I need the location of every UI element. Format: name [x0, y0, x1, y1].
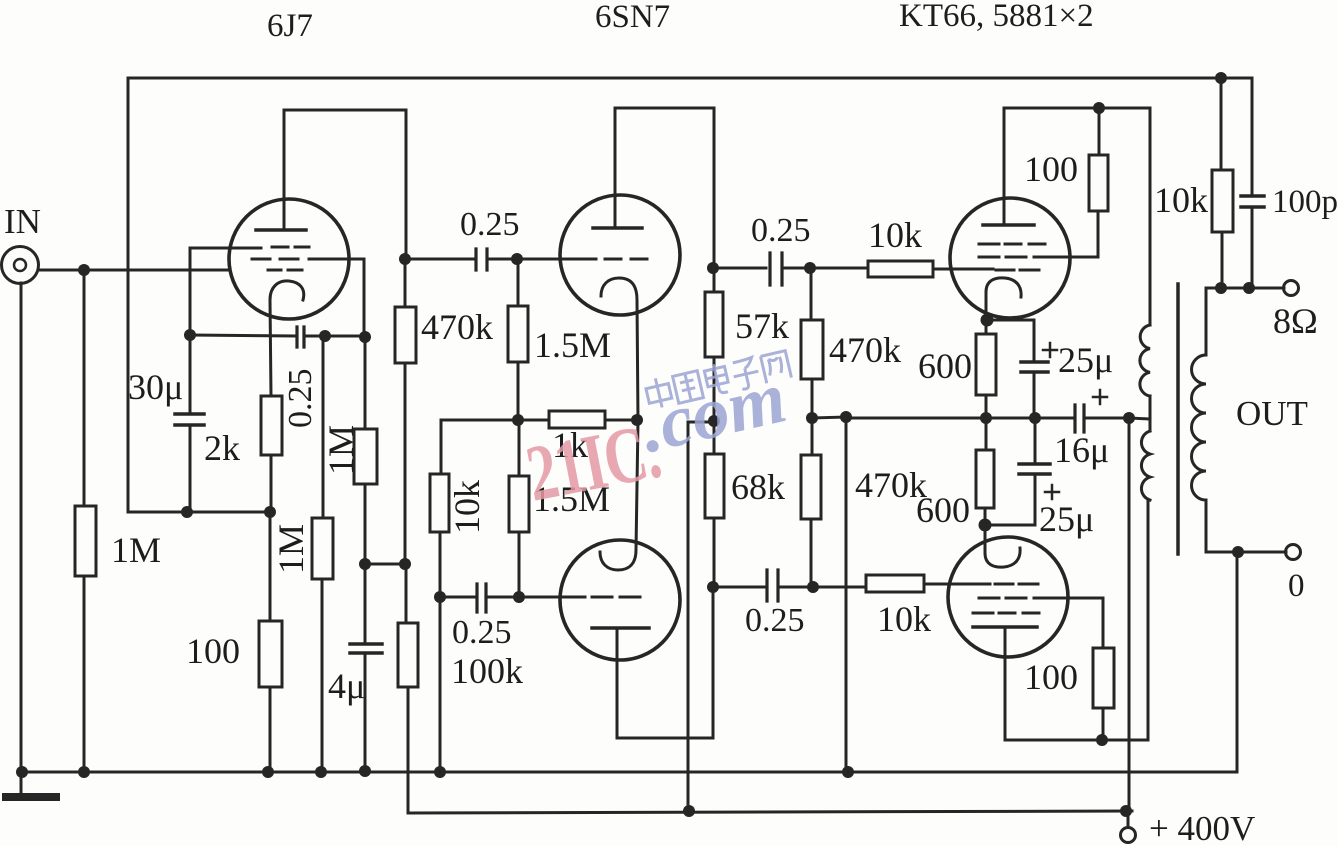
node: 57k top / plate-1 node — [707, 262, 719, 274]
node: top bus junction at 10k feedback resistor — [1215, 72, 1227, 84]
node: grid-leak midpoint — [806, 412, 818, 424]
watermark: chinese site name (outline glyph approximations) — [644, 351, 791, 410]
pin: KT66-2 grid dashes — [995, 583, 1038, 586]
pin: KT66-2 plate bar — [973, 625, 1037, 629]
svg-text:10k: 10k — [877, 599, 931, 639]
pin: 6SN7-1 grid row — [517, 258, 647, 261]
capacitor 16u (rail to B+) — [1075, 405, 1129, 432]
pin: 6J7 screen grid row (exits left) — [190, 247, 309, 248]
wire: secondary bottom down to ground bus — [1236, 552, 1239, 772]
pin: 6J7 suppressor row (exits right) — [252, 258, 364, 261]
svg-text:25μ: 25μ — [1039, 499, 1094, 539]
pin: KT66-2 beam plate dashes — [973, 612, 1039, 615]
node: 6J7 plate coupling node — [399, 253, 411, 265]
label: + polarity lower 25u — [1045, 485, 1059, 499]
node: 1M-3 top junction — [359, 331, 371, 343]
svg-text:+ 400V: + 400V — [1149, 809, 1255, 845]
svg-text:100k: 100k — [451, 651, 523, 691]
pin: KT66-1 plate bar — [983, 223, 1034, 227]
node: 30u bottom on y512 wire — [181, 506, 193, 518]
resistor 10k (lower grid stopper) — [813, 575, 990, 592]
node: 68k bottom / plate-2 node — [707, 581, 719, 593]
svg-text:1.5M: 1.5M — [534, 325, 611, 365]
terminal: 8 ohm output — [1284, 281, 1299, 296]
wire: secondary top to 8ohm terminal — [1206, 287, 1284, 290]
wire: 10k feedback top lead — [1220, 78, 1223, 170]
wire: secondary bottom to 0 terminal — [1206, 551, 1286, 554]
pin: KT66-1 cathode — [986, 278, 1021, 320]
svg-text:68k: 68k — [731, 467, 785, 507]
resistor 57k (plate load 1) — [705, 268, 723, 421]
svg-text:0.25: 0.25 — [745, 602, 805, 639]
svg-text:4μ: 4μ — [328, 666, 365, 706]
tube V2a 6SN7 first triode envelope — [560, 195, 680, 315]
node: +400V bus junction — [1120, 805, 1132, 817]
node: 57k/68k B+ junction — [708, 415, 720, 427]
tube V1 6J7 envelope — [229, 199, 349, 319]
wire: 6SN7-1 plate link to 57k node — [615, 108, 714, 268]
wire: +400V supply bus — [408, 811, 1132, 813]
node: grid return on ground bus — [842, 766, 854, 778]
tube V4 KT66 lower envelope (inverted) — [948, 537, 1068, 657]
node: B+ riser on +400V bus — [683, 805, 695, 817]
label: + polarity upper 25u — [1043, 343, 1057, 357]
svg-text:25μ: 25μ — [1058, 340, 1113, 380]
svg-text:10k: 10k — [1154, 180, 1208, 220]
svg-text:100: 100 — [186, 631, 240, 671]
pin: 6J7 plate bar — [256, 228, 306, 232]
pin: 6J7 control grid row dashes — [268, 269, 302, 272]
capacitor 0.25 (coupling to lower KT66) — [713, 570, 813, 601]
svg-text:8Ω: 8Ω — [1273, 301, 1318, 341]
svg-text:100: 100 — [1024, 657, 1078, 697]
node: ground bus left end — [16, 766, 28, 778]
svg-text:1M: 1M — [111, 530, 161, 570]
wire: suppressor down to divider node — [363, 259, 366, 337]
svg-text:600: 600 — [916, 490, 970, 530]
wire: KT66-2 plate to primary bottom — [1005, 500, 1148, 740]
node: 6SN7 grid-1 node — [511, 253, 523, 265]
node: B+ junction at rail — [1123, 412, 1135, 424]
node: 1M divider top — [319, 330, 331, 342]
pin: 6SN7-1 plate bar — [593, 226, 642, 230]
wire: feedback bus link y512 — [128, 511, 270, 514]
resistor 1M (input grid leak) — [75, 270, 96, 772]
svg-text:0.25: 0.25 — [452, 614, 512, 651]
resistor 600 (lower cathode) — [976, 418, 994, 525]
resistor 100k (to +400V) — [398, 564, 418, 813]
svg-text:57k: 57k — [735, 306, 789, 346]
wire: tap link y564 — [365, 563, 405, 566]
capacitor 0.25 (screen coupling) — [190, 327, 365, 347]
svg-text:0.25: 0.25 — [460, 206, 520, 243]
node: 100 lower bottom on plate wire — [1096, 734, 1108, 746]
wire: ground bus — [21, 771, 1237, 774]
pin: KT66-2 screen row (exits right) — [979, 598, 1103, 648]
node: secondary bottom ground junction — [1232, 546, 1244, 558]
tube V3 KT66 upper envelope — [950, 198, 1070, 318]
node: 4u bottom on ground bus — [359, 765, 371, 777]
watermark: 21IC.com logo (pink letters) — [520, 407, 667, 519]
pin: 6SN7-2 grid row — [519, 596, 640, 599]
wire: screen stub down to 30u node — [189, 248, 192, 335]
node: 470k/100k junction — [399, 558, 411, 570]
svg-text:OUT: OUT — [1236, 394, 1308, 433]
node: 25u upper bottom on rail — [1029, 412, 1041, 424]
wire: cathode rail y420 left — [441, 419, 549, 422]
capacitor 25u (lower cathode bypass) — [985, 418, 1050, 525]
node: input junction at 1M grid leak — [78, 264, 90, 276]
resistor 10k (feedback) — [1212, 170, 1233, 288]
wire: B+ riser for 6SN7 loads — [688, 422, 714, 811]
node: 100p bottom on secondary top — [1243, 282, 1255, 294]
terminal: IN jack — [2, 247, 39, 284]
capacitor 4u — [350, 564, 382, 771]
capacitor 100p (feedback compensation) — [1241, 196, 1264, 288]
tube V2b 6SN7 second triode envelope — [560, 540, 680, 660]
capacitor 0.25 (first coupling) — [405, 249, 517, 270]
svg-text:100: 100 — [1024, 149, 1078, 189]
resistor 470k (lower grid leak) — [801, 418, 821, 587]
resistor 1M (to 100k tap) — [354, 337, 377, 564]
node: 1M-3 / 100k tap junction — [359, 558, 371, 570]
node: 600 upper bottom on rail — [980, 412, 992, 424]
resistor 100 (cathode chain to ground) — [259, 512, 282, 772]
svg-text:6SN7: 6SN7 — [595, 0, 670, 35]
svg-text:KT66, 5881×2: KT66, 5881×2 — [899, 0, 1094, 34]
resistor 2k (6J7 cathode bias) — [261, 396, 282, 512]
wire: 6SN7-2 plate route to 68k node — [617, 587, 713, 738]
label: + polarity 16u — [1093, 390, 1107, 404]
svg-text:16μ: 16μ — [1054, 430, 1109, 470]
node: 100 screen resistor top — [1093, 102, 1105, 114]
resistor 100 (upper screen stopper) — [1089, 108, 1108, 257]
capacitor 0.25 (coupling to upper KT66) — [713, 253, 810, 285]
svg-text:1M: 1M — [271, 524, 311, 574]
resistor 100 (lower screen stopper) — [1093, 648, 1114, 740]
node: common cathode junction — [631, 414, 643, 426]
resistor 600 (upper cathode) — [976, 320, 996, 418]
node: grid return top — [840, 411, 852, 423]
node: 6SN7 grid-2 node — [513, 591, 525, 603]
transformer T1 core — [1176, 284, 1180, 554]
resistor 10k (to ground) — [430, 420, 449, 597]
pin: 6J7 cathode — [270, 281, 304, 396]
wire: 6J7 plate top-link to coupling node — [284, 110, 406, 259]
wire: KT66-1 plate to output transformer primary top — [1004, 108, 1150, 325]
wire: cathode bias rail y418 — [846, 417, 1074, 420]
svg-text:100p: 100p — [1272, 184, 1338, 220]
pin: KT66-1 screen row (exits right) — [979, 256, 1098, 259]
wire: rail to primary center tap — [1129, 418, 1150, 419]
wire: top feedback bus from 8ohm tap to first-stage cathode network — [128, 78, 1252, 512]
svg-text:0.25: 0.25 — [282, 369, 319, 429]
svg-text:30μ: 30μ — [128, 367, 183, 407]
svg-text:600: 600 — [918, 346, 972, 386]
svg-text:470k: 470k — [829, 330, 901, 370]
capacitor 30u — [175, 335, 204, 512]
capacitor 0.25 (grid-2 AC ground) — [440, 584, 519, 612]
svg-text:1M: 1M — [321, 425, 361, 475]
wire: grid-return node to ground bus — [439, 597, 442, 772]
svg-text:10k: 10k — [447, 480, 487, 534]
transformer T1 secondary winding — [1192, 288, 1207, 552]
node: 100 bottom on ground bus — [262, 766, 274, 778]
resistor 470k (6J7 plate load) — [395, 259, 416, 564]
node: upper cathode junction — [981, 314, 994, 327]
pin: 6SN7-2 plate bar — [592, 626, 649, 630]
node: 1M bottom on ground bus — [78, 766, 90, 778]
svg-text:0.25: 0.25 — [751, 212, 811, 249]
node: cathode network junction — [264, 506, 276, 518]
wire: grid return to ground — [812, 417, 846, 772]
terminal: 0 output — [1286, 545, 1301, 560]
resistor 10k (upper grid stopper) — [810, 261, 993, 277]
resistor 470k (upper grid leak) — [801, 268, 823, 418]
pin: 6SN7-1 cathode — [601, 278, 638, 421]
node: grounded grid-return node — [434, 591, 446, 603]
node: feedback tap on secondary top — [1215, 282, 1227, 294]
node: lower cathode junction — [979, 519, 992, 532]
pin: 6SN7-2 cathode (inverted) — [600, 421, 638, 570]
node: upper KT66 grid node — [804, 262, 816, 274]
resistor 68k (plate load 2) — [705, 421, 724, 587]
resistor 1.5M (upper bootstrap) — [508, 259, 528, 420]
svg-text:0: 0 — [1288, 568, 1305, 604]
svg-text:6J7: 6J7 — [267, 8, 313, 44]
svg-text:10k: 10k — [868, 215, 922, 255]
resistor 1k (shared cathode) — [549, 411, 637, 428]
ground — [6, 772, 56, 797]
transformer T1 primary winding — [1140, 325, 1150, 500]
svg-text:2k: 2k — [204, 428, 240, 468]
node: lower KT66 grid node — [807, 581, 819, 593]
capacitor 25u (upper cathode bypass) — [987, 320, 1048, 418]
svg-text:IN: IN — [4, 202, 41, 241]
pin: KT66-2 cathode (top) — [985, 525, 1020, 567]
node: 1.5M junction on y420 — [512, 414, 524, 426]
node: 1M-2 bottom on ground bus — [315, 766, 327, 778]
resistor 1.5M (lower bootstrap) — [509, 420, 529, 597]
node: on ground bus — [434, 766, 446, 778]
pin: KT66-1 beam plate dashes — [979, 243, 1045, 246]
svg-text:470k: 470k — [421, 307, 493, 347]
wire: jack shield down to ground bus — [20, 283, 23, 772]
watermark: .com script (lavender) — [633, 356, 794, 469]
terminal: +400V — [1121, 812, 1136, 843]
wire: B+ riser from +400V to rail — [1128, 418, 1131, 811]
node: screen/30u junction — [184, 329, 196, 341]
resistor 1M (divider to ground) — [312, 336, 333, 772]
wire: input signal to 6J7 grid — [38, 269, 230, 272]
pin: KT66-1 grid dashes — [996, 269, 1039, 272]
